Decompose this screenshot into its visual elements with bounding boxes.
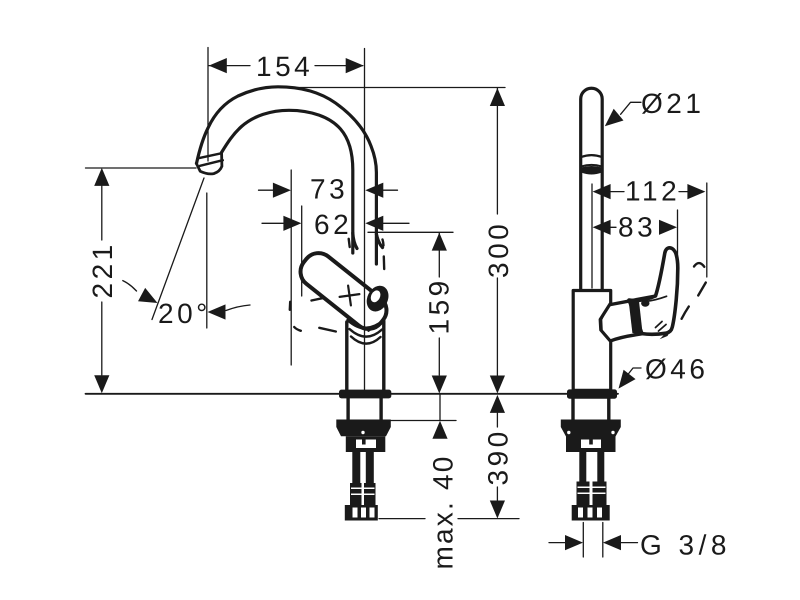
ext line 83 right [677,210,679,275]
159 arrows [432,233,447,251]
dim line max40 [439,395,441,421]
112 arrows [593,184,611,199]
dashed lever swing outline (raised position) [349,239,385,319]
handle collar band [628,299,642,335]
handle side view blade [629,248,678,334]
ext line 300 top [280,87,505,89]
supply shafts right view [572,452,610,521]
svg-text:62: 62 [314,209,352,240]
hinge piece [363,282,393,315]
ext line 159 top [368,231,453,233]
body cylinder [347,321,384,390]
svg-text:390: 390 [483,428,514,485]
svg-text:G 3/8: G 3/8 [640,530,731,561]
dim line 112 [611,191,688,193]
83 arrows [593,220,611,235]
dashed lever swing outline (lowered position) [290,297,376,331]
max40 arrow [432,421,447,439]
ext line 221 top [86,167,197,169]
dim line 221 [101,186,103,375]
deck line [86,393,619,395]
ext lines G3/8 [583,523,603,558]
leader 20deg left [123,281,137,291]
20 deg slant line [152,178,204,320]
ext line 73 left [290,170,292,365]
deck flange left view [339,390,391,399]
dim line 390 [496,413,498,501]
leader 20deg right [226,305,250,311]
62 arrows [283,216,301,231]
leader O46 [628,368,642,375]
20deg arrow at slant line [138,288,161,310]
154 arrows [209,58,227,73]
svg-text:max. 40: max. 40 [428,455,459,570]
svg-text:159: 159 [424,277,455,334]
spout outer curve [197,87,377,264]
THIN LINES [86,48,707,558]
spout tip cap [199,153,222,158]
20deg arrow at vertical line [208,304,226,319]
20 deg vertical line [206,193,208,328]
svg-text:20°: 20° [158,298,211,329]
tube below flange right view [573,398,609,420]
svg-text:73: 73 [310,174,348,205]
dim line 83 [611,226,616,228]
handle skirt rings [348,320,384,328]
svg-text:Ø21: Ø21 [641,88,704,119]
pipe-to-cartridge transition curves [353,233,357,249]
swivel band on pipe [581,155,602,157]
smile arc [645,296,667,301]
ext line faucet axis [364,49,366,390]
mounting nut right view [561,420,621,453]
lever handle (solid) [294,247,392,335]
chamfer inner line [602,306,610,340]
ext line 390 bottom [379,518,519,520]
svg-text:112: 112 [625,176,680,207]
G3/8 arrows [565,535,583,550]
300 arrows [490,88,505,106]
dim line 159 [438,233,440,375]
O21 leader arrow [600,109,624,132]
ARROWS [94,58,705,550]
mounting nut left view [336,420,391,453]
plus mark on lever [338,284,361,307]
dashed handle swing arc right view [682,263,706,319]
tube below flange [348,398,381,420]
ext line 62 left [301,206,303,296]
ext line max40 bottom [390,420,457,422]
svg-text:300: 300 [483,221,514,278]
svg-text:154: 154 [256,51,313,82]
dim line 300 [496,88,498,376]
spout inner curve [222,110,353,253]
dim line G3/8 [549,542,638,544]
dim line 73 [259,189,398,191]
390 arrows [490,395,505,413]
fork arm top edge [611,296,656,305]
tick marks [656,322,667,332]
dim line 154 [209,65,363,67]
221 arrows [94,168,109,186]
handle bottom spur [660,330,672,340]
body right view with chamfer notch [573,291,611,391]
svg-text:221: 221 [87,241,118,298]
pipe right view [581,88,603,289]
pivot dot [641,300,649,307]
ext line 112 right [706,183,708,277]
dim line 62 [262,222,409,224]
leader O21 [621,102,641,114]
73 arrows [273,183,291,198]
ext line 112 left [591,184,593,288]
svg-text:83: 83 [618,212,656,243]
supply shafts left view [345,452,378,521]
svg-text:Ø46: Ø46 [645,354,708,385]
O46 leader arrow [613,370,636,394]
fork arm bottom edge [611,334,641,341]
deck flange right view [567,389,617,398]
ext line spout tip vertical [207,48,209,162]
